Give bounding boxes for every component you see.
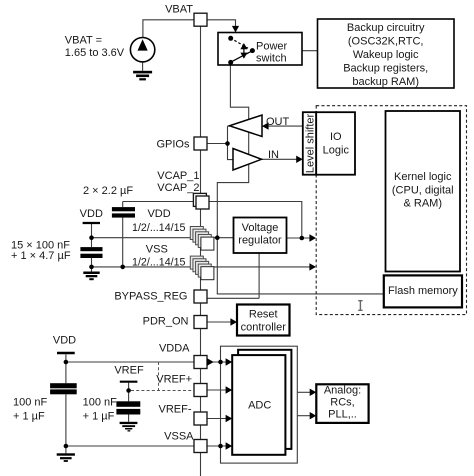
svg-text:BYPASS_REG: BYPASS_REG — [114, 290, 187, 302]
svg-text:(CPU, digital: (CPU, digital — [392, 184, 454, 196]
svg-text:regulator: regulator — [238, 235, 282, 247]
svg-text:VCAP_1: VCAP_1 — [157, 170, 199, 182]
svg-text:Analog:: Analog: — [324, 385, 361, 397]
svg-text:Power: Power — [256, 40, 288, 52]
svg-text:VDD: VDD — [80, 208, 103, 220]
svg-text:IO: IO — [330, 131, 342, 143]
svg-text:backup RAM): backup RAM) — [352, 76, 419, 88]
svg-text:1/2/...14/15: 1/2/...14/15 — [132, 222, 186, 234]
svg-text:VBAT: VBAT — [165, 4, 193, 16]
svg-text:VDDA: VDDA — [159, 343, 190, 355]
svg-text:ADC: ADC — [248, 399, 271, 411]
svg-text:PDR_ON: PDR_ON — [143, 315, 189, 327]
svg-text:Wakeup logic: Wakeup logic — [353, 49, 419, 61]
svg-text:controller: controller — [241, 322, 287, 334]
svg-text:VREF-: VREF- — [159, 404, 192, 416]
svg-text:VSSA: VSSA — [164, 431, 194, 443]
svg-text:Backup registers,: Backup registers, — [343, 63, 428, 75]
svg-text:Level shifter: Level shifter — [304, 114, 316, 174]
svg-text:+ 1 × 4.7 µF: + 1 × 4.7 µF — [11, 250, 71, 262]
svg-text:VSS: VSS — [146, 244, 168, 256]
svg-text:RCs,: RCs, — [330, 397, 354, 409]
svg-text:Voltage: Voltage — [242, 222, 279, 234]
svg-text:PLL,..: PLL,.. — [328, 409, 357, 421]
svg-text:100 nF: 100 nF — [83, 397, 118, 409]
svg-text:1/2/...14/15: 1/2/...14/15 — [132, 257, 186, 269]
svg-text:Logic: Logic — [323, 144, 350, 156]
svg-text:switch: switch — [256, 52, 287, 64]
svg-text:2 × 2.2 µF: 2 × 2.2 µF — [83, 185, 133, 197]
svg-text:+ 1 µF: + 1 µF — [13, 411, 45, 423]
svg-text:Backup circuitry: Backup circuitry — [347, 22, 425, 34]
svg-text:100 nF: 100 nF — [13, 397, 48, 409]
svg-text:Kernel logic: Kernel logic — [394, 171, 452, 183]
svg-text:VCAP_2: VCAP_2 — [157, 182, 199, 194]
svg-text:GPIOs: GPIOs — [156, 139, 190, 151]
svg-text:VDD: VDD — [53, 335, 76, 347]
svg-text:+ 1 µF: + 1 µF — [83, 411, 115, 423]
svg-text:Flash memory: Flash memory — [388, 285, 458, 297]
svg-text:VREF: VREF — [114, 364, 144, 376]
svg-text:IN: IN — [268, 149, 279, 161]
svg-text:VDD: VDD — [147, 208, 170, 220]
svg-text:VBAT =: VBAT = — [65, 35, 102, 47]
svg-text:OUT: OUT — [266, 116, 290, 128]
svg-text:(OSC32K,RTC,: (OSC32K,RTC, — [348, 36, 424, 48]
svg-text:& RAM): & RAM) — [404, 198, 443, 210]
svg-text:Reset: Reset — [249, 309, 278, 321]
svg-text:1.65 to 3.6V: 1.65 to 3.6V — [65, 47, 125, 59]
svg-text:VREF+: VREF+ — [156, 373, 192, 385]
